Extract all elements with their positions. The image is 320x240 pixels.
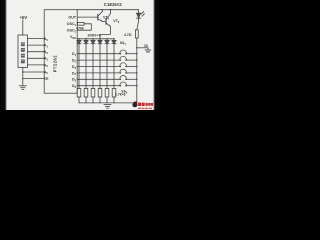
node col1-row6 xyxy=(78,85,80,87)
wire D6 row xyxy=(77,85,120,87)
wire column 2 xyxy=(85,39,87,41)
resistor R8 4.7ohm xyxy=(135,30,138,38)
node bus row5 xyxy=(136,79,138,81)
wire +5V to encoder box xyxy=(22,20,24,35)
resistor R3 2.7k xyxy=(84,89,88,98)
switch SA1 xyxy=(120,53,122,55)
encoder box text blobs xyxy=(21,42,25,63)
wire A4 xyxy=(28,64,45,66)
node bus-col2 xyxy=(85,38,87,40)
wire D4 row xyxy=(77,72,120,74)
wire D1 row xyxy=(77,53,120,55)
node bus row3 xyxy=(136,66,138,68)
switch SA6 xyxy=(120,85,122,87)
resistor R4 2.7k xyxy=(91,89,95,98)
watermark text xyxy=(138,103,153,106)
diode VD4 1N60 xyxy=(98,40,102,43)
wire switch bus xyxy=(136,38,138,103)
node col4-row3 xyxy=(99,66,101,68)
wire resistor 6 to rail xyxy=(106,97,108,103)
wire TE tee xyxy=(23,78,44,80)
wire A5 tee xyxy=(23,71,44,73)
diode VD6 1N60 xyxy=(112,40,116,43)
node rail-VT2 xyxy=(110,9,112,11)
node bus-col6 xyxy=(113,38,115,40)
wire VT2 emitter to bus xyxy=(100,26,110,39)
node bus-col5 xyxy=(106,38,108,40)
svg-text:3V: 3V xyxy=(144,44,149,48)
resistor R5 2.7k xyxy=(98,89,102,98)
wire D2 row xyxy=(77,59,120,61)
VT2 emitter arrow xyxy=(109,25,111,27)
svg-text:+5V: +5V xyxy=(20,15,28,20)
svg-text:TE: TE xyxy=(44,77,49,81)
switch SA2 xyxy=(120,59,122,61)
svg-text:C1815×2: C1815×2 xyxy=(104,2,123,7)
node col2-row5 xyxy=(85,79,87,81)
wire D5 row xyxy=(77,78,120,80)
resistor R2 2.7k xyxy=(77,89,81,98)
LED VD7 with arrows xyxy=(137,13,141,18)
switch SA5 xyxy=(120,79,122,81)
wire column 6 xyxy=(113,39,115,41)
node bus-col3 xyxy=(92,38,94,40)
wire resistor 7 to rail xyxy=(113,97,115,103)
wire column 5 xyxy=(106,39,108,41)
more parts below xyxy=(77,38,138,108)
wire switch 3 to bus xyxy=(126,66,137,68)
wire A0 from box to IC xyxy=(28,38,45,40)
wire resistor 3 to rail xyxy=(85,97,87,103)
VT1 emitter arrow xyxy=(100,20,102,22)
resistor R6 2.7k xyxy=(105,89,109,98)
svg-text:4.7Ω: 4.7Ω xyxy=(124,33,132,37)
node bus row2 xyxy=(136,59,138,61)
wire switch 5 to bus xyxy=(126,78,137,80)
wire A3 xyxy=(28,57,45,59)
paper background xyxy=(0,0,160,110)
diode VD5 1N60 xyxy=(105,40,109,43)
wire switch 2 to bus xyxy=(126,59,137,61)
resistor R1 470k on OSC1 xyxy=(78,22,85,25)
wire D3 row xyxy=(77,66,120,68)
IC pin labels A0-A5 TE xyxy=(44,37,49,81)
wire switch 6 to bus xyxy=(126,85,137,87)
node battery tee xyxy=(136,47,138,49)
wire top rail xyxy=(77,10,138,13)
wire A2 xyxy=(28,51,45,53)
svg-text:OUT: OUT xyxy=(68,16,76,20)
svg-text:1N60×6: 1N60×6 xyxy=(87,34,101,38)
encoder switch box xyxy=(18,35,28,68)
node bus row4 xyxy=(136,72,138,74)
node bus-col1 xyxy=(78,38,80,40)
wire column 3 xyxy=(92,39,94,41)
left black bar xyxy=(0,0,7,110)
transistor Q1 VT1 xyxy=(97,15,99,20)
wire resistor 4 to rail xyxy=(92,97,94,103)
watermark logo flame xyxy=(132,101,137,108)
wire A1 xyxy=(28,44,45,46)
diode VD3 1N60 xyxy=(91,40,95,43)
wire column 4 xyxy=(99,39,101,41)
node col5-row2 xyxy=(106,59,108,61)
wire resistor 5 to rail xyxy=(99,97,101,103)
diode VD1 1N60 xyxy=(77,40,81,43)
switch SA3 xyxy=(120,66,122,68)
wire OSC1 to OSC2 loop xyxy=(77,24,91,30)
IC U1 PT2262 box xyxy=(44,10,77,94)
wire resistor 2 to rail xyxy=(78,97,80,103)
node bus-col4 xyxy=(99,38,101,40)
ground xyxy=(19,85,26,87)
diode VD2 1N60 xyxy=(84,40,88,43)
node col3-row4 xyxy=(92,72,94,74)
ground bottom xyxy=(104,104,111,106)
node bus row6 xyxy=(136,85,138,87)
wire column 1 xyxy=(78,39,80,41)
wire VDD diode bus xyxy=(77,38,114,40)
wire OUT to VT1 base xyxy=(77,16,98,18)
right black bar xyxy=(153,0,160,110)
wire switch 1 to bus xyxy=(126,53,137,55)
wire from box bottom to ground xyxy=(22,68,24,86)
svg-text:2.7k×6: 2.7k×6 xyxy=(115,93,126,97)
IC pin labels right xyxy=(67,16,77,90)
transistor Q2 VT2 xyxy=(102,20,106,22)
wire battery branch xyxy=(137,47,148,49)
battery B1 3V xyxy=(147,48,149,50)
node rail-VT1 xyxy=(102,9,104,11)
node col6-row1 xyxy=(113,53,115,55)
resistor R7 2.7k xyxy=(112,89,116,98)
svg-text:PT2262: PT2262 xyxy=(53,55,58,73)
node bus row1 xyxy=(136,53,138,55)
svg-text:470k: 470k xyxy=(76,26,84,30)
wire bottom rail xyxy=(79,102,137,104)
wire switch 4 to bus xyxy=(126,72,137,74)
switch SA4 xyxy=(120,72,122,74)
